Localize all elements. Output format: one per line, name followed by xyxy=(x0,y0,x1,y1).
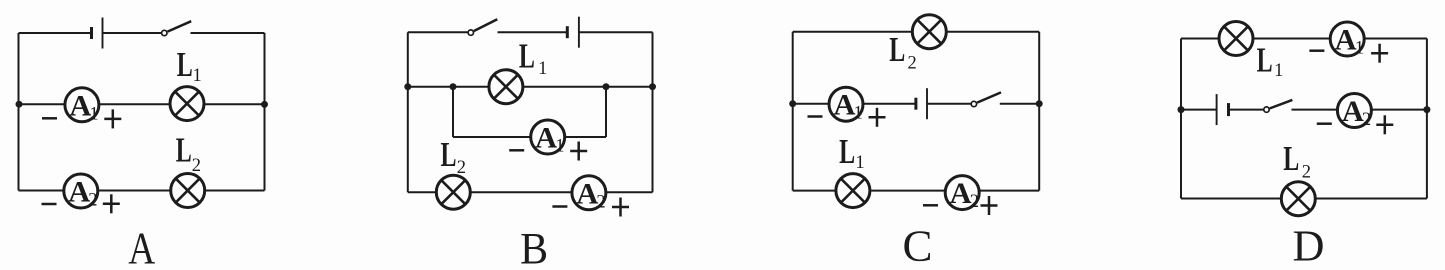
svg-text:1: 1 xyxy=(855,153,864,173)
svg-text:1: 1 xyxy=(89,104,98,124)
svg-text:2: 2 xyxy=(192,156,201,176)
svg-text:1: 1 xyxy=(1274,61,1283,81)
svg-text:B: B xyxy=(520,224,548,270)
svg-text:A: A xyxy=(1342,95,1364,128)
svg-text:1: 1 xyxy=(193,66,202,86)
svg-text:C: C xyxy=(903,221,933,270)
svg-text:L: L xyxy=(1257,40,1273,79)
svg-text:A: A xyxy=(68,176,90,209)
svg-text:L: L xyxy=(176,131,192,170)
svg-text:L: L xyxy=(1283,139,1299,178)
svg-text:2: 2 xyxy=(908,53,917,73)
svg-text:2: 2 xyxy=(1302,163,1311,183)
svg-text:A: A xyxy=(950,177,972,210)
svg-text:2: 2 xyxy=(457,158,466,178)
svg-text:1: 1 xyxy=(854,104,863,124)
svg-text:L: L xyxy=(441,135,457,174)
svg-text:L: L xyxy=(519,36,535,75)
svg-text:A: A xyxy=(535,122,557,155)
svg-text:L: L xyxy=(177,45,193,84)
svg-text:2: 2 xyxy=(1362,110,1371,130)
svg-text:1: 1 xyxy=(1355,39,1364,59)
svg-text:A: A xyxy=(834,89,856,122)
svg-text:L: L xyxy=(839,132,855,171)
svg-text:A: A xyxy=(69,89,91,122)
svg-text:L: L xyxy=(889,30,905,69)
svg-text:A: A xyxy=(128,223,155,270)
svg-text:2: 2 xyxy=(970,192,979,212)
svg-text:A: A xyxy=(576,177,598,210)
svg-text:2: 2 xyxy=(88,191,97,211)
svg-text:1: 1 xyxy=(555,137,564,157)
svg-text:1: 1 xyxy=(538,59,547,79)
svg-text:A: A xyxy=(1335,24,1357,57)
svg-text:D: D xyxy=(1293,221,1325,270)
svg-text:2: 2 xyxy=(596,192,605,212)
